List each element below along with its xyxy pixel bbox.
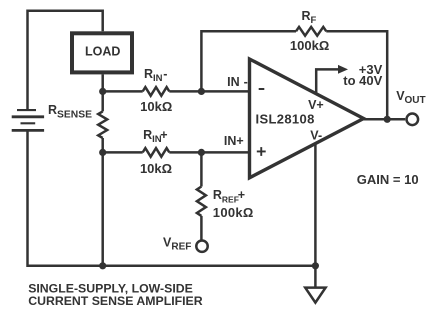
svg-text:V-: V- bbox=[310, 129, 322, 143]
svg-text:+: + bbox=[160, 128, 167, 142]
svg-text:ISL28108: ISL28108 bbox=[256, 112, 315, 127]
svg-text:IN: IN bbox=[227, 75, 240, 89]
svg-text:-: - bbox=[163, 67, 167, 81]
svg-text:GAIN = 10: GAIN = 10 bbox=[357, 172, 419, 187]
svg-text:+: + bbox=[238, 188, 245, 202]
svg-text:-: - bbox=[244, 75, 248, 89]
svg-text:LOAD: LOAD bbox=[85, 45, 120, 59]
svg-text:to 40V: to 40V bbox=[343, 73, 382, 88]
svg-text:100kΩ: 100kΩ bbox=[290, 38, 329, 53]
svg-text:IN+: IN+ bbox=[224, 134, 244, 148]
svg-text:CURRENT SENSE AMPLIFIER: CURRENT SENSE AMPLIFIER bbox=[28, 294, 203, 308]
svg-text:10kΩ: 10kΩ bbox=[140, 99, 172, 114]
svg-text:100kΩ: 100kΩ bbox=[213, 205, 254, 220]
svg-text:10kΩ: 10kΩ bbox=[140, 161, 172, 176]
svg-text:V+: V+ bbox=[308, 98, 324, 112]
